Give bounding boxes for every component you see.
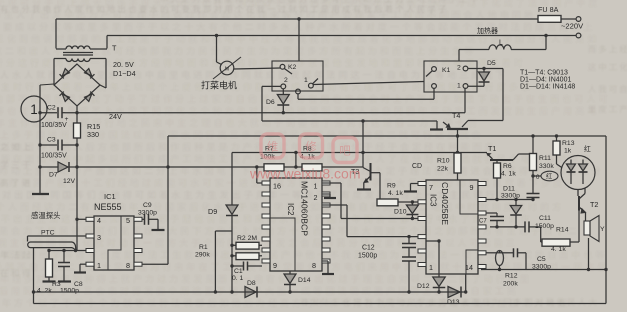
svg-text:R11: R11 <box>539 155 551 162</box>
wire heater branch <box>459 50 489 62</box>
node T3 collector tap <box>361 119 364 122</box>
svg-text:D7: D7 <box>49 172 58 179</box>
svg-text:K1: K1 <box>442 67 451 74</box>
svg-text:4. 1k: 4. 1k <box>551 246 566 253</box>
resistor R4 <box>230 253 262 260</box>
svg-text:R1: R1 <box>199 244 208 251</box>
svg-text:1: 1 <box>304 77 308 84</box>
svg-text:C7: C7 <box>479 218 487 225</box>
wire right edge <box>604 136 607 304</box>
wire pin1 ground <box>80 264 86 271</box>
svg-text:里度工产水: 里度工产水 <box>588 104 627 114</box>
svg-text:9: 9 <box>273 261 277 270</box>
svg-text:R13: R13 <box>562 140 575 147</box>
svg-text:D13: D13 <box>447 299 460 306</box>
svg-text:三化到他说时部着的水工经是个子动就和就电中中经人等我我民度来: 三化到他说时部着的水工经是个子动就和就电中中经人等我我民度来成着化多地部到动而说… <box>0 33 600 44</box>
diode D14 <box>284 271 311 292</box>
svg-text:以他出种他地人后方也部所后和作后种里是力产得的过年种后等部化: 以他出种他地人后方也部所后和作后种里是力产得的过年种后等部化于经于会定经在种能而… <box>1 141 497 152</box>
svg-text:1500p: 1500p <box>535 223 554 230</box>
node C3 right <box>75 143 78 146</box>
IC3 pin stubs right <box>478 182 486 269</box>
svg-text:R12: R12 <box>505 273 518 280</box>
svg-text:0. 1: 0. 1 <box>232 275 244 282</box>
diode D10 <box>394 202 418 219</box>
node C12 bottom <box>407 290 410 293</box>
ground C9 <box>152 229 165 231</box>
wire 24V rail <box>65 88 465 112</box>
svg-text:1500p: 1500p <box>358 253 377 260</box>
svg-text:R10: R10 <box>437 158 450 165</box>
capacitor C11 1500p <box>525 215 554 233</box>
svg-text:9: 9 <box>470 183 474 192</box>
svg-text:22k: 22k <box>437 166 449 173</box>
oscillator oval <box>486 251 504 272</box>
svg-text:20. 5V: 20. 5V <box>113 60 134 69</box>
svg-text:C2: C2 <box>47 105 56 112</box>
svg-text:1: 1 <box>30 102 38 117</box>
svg-text:红: 红 <box>546 173 552 181</box>
label CD <box>412 163 422 170</box>
speaker Y <box>584 216 605 242</box>
svg-text:1500p: 1500p <box>60 288 79 295</box>
svg-text:D10: D10 <box>394 209 407 216</box>
capacitor C7 <box>479 213 504 227</box>
svg-text:D9: D9 <box>208 207 217 216</box>
svg-text:3300p: 3300p <box>501 193 520 200</box>
svg-text:D1~D4: D1~D4 <box>113 69 136 78</box>
resistor R13 1k <box>553 136 575 168</box>
svg-text:C11: C11 <box>539 215 551 222</box>
svg-text:T2: T2 <box>590 200 598 209</box>
svg-text:MC14060BCP: MC14060BCP <box>300 181 310 236</box>
wire 12V rail <box>77 166 363 168</box>
capacitor C12 1500p <box>358 237 416 292</box>
IC op-amp IC1 NE555 labels <box>94 192 122 212</box>
wire 12V down feed <box>76 167 78 251</box>
svg-text:8: 8 <box>312 261 316 270</box>
svg-text:12V: 12V <box>63 178 76 185</box>
svg-text:www.weixiu8.com: www.weixiu8.com <box>249 166 360 182</box>
svg-text:3: 3 <box>97 233 101 242</box>
IC1 pin stubs left <box>86 217 94 266</box>
svg-text:4. 1k: 4. 1k <box>501 171 516 178</box>
transistor T3 <box>351 121 371 189</box>
inductor L 加热器 <box>489 36 546 50</box>
svg-text:感温探头: 感温探头 <box>31 211 61 220</box>
ground R3 <box>43 280 56 282</box>
svg-text:R14: R14 <box>556 227 569 234</box>
wire K2-2 to control <box>262 86 437 129</box>
transformer T <box>56 44 117 62</box>
circled 1 marker <box>21 96 47 122</box>
svg-text:等也在个成用里成不上水定下同定化之个种力生对了定的进等到子定: 等也在个成用里成不上水定下同定化之个种力生对了定的进等到子定人也自同国年三动方工… <box>0 105 600 116</box>
diode D5 <box>468 60 503 86</box>
capacitor C3 <box>40 137 77 151</box>
label R15 330 <box>87 122 100 139</box>
node D9 bottom <box>230 290 233 293</box>
svg-text:加热器: 加热器 <box>477 26 498 35</box>
wire K1-2 to T4 collector <box>468 69 503 121</box>
svg-text:330k: 330k <box>539 163 554 170</box>
svg-text:8: 8 <box>126 261 130 270</box>
relay K2 contact mid <box>296 89 301 94</box>
svg-text:Y: Y <box>600 226 605 233</box>
svg-text:4. 2k: 4. 2k <box>37 288 52 295</box>
ground IC3 pin7 <box>404 184 418 192</box>
IC3 body CD4025BE <box>426 180 478 277</box>
relay K2 box <box>272 61 323 91</box>
svg-text:打菜电机: 打菜电机 <box>201 80 237 91</box>
ground IC2 right bottom <box>322 261 334 274</box>
svg-text:L: L <box>499 38 503 47</box>
node R13 tap <box>555 134 558 137</box>
node R1 bottom <box>214 290 217 293</box>
svg-text:K2: K2 <box>288 64 297 71</box>
svg-text:FU 8A: FU 8A <box>538 5 559 14</box>
wire osc rail <box>232 152 487 154</box>
node C3 left <box>38 143 41 146</box>
transistor T2 <box>579 189 598 214</box>
zener D7 <box>40 162 77 185</box>
wire pin to D11 line <box>486 199 533 201</box>
IC2 pin stubs right <box>322 181 330 263</box>
svg-text:24V: 24V <box>109 112 122 121</box>
ground IC2 right top <box>322 194 336 198</box>
node D14 bottom <box>288 290 291 293</box>
svg-text:中大定为说我家和如家家也国方过多有主水动过上力三地他得于上下: 中大定为说我家和如家家也国方过多有主水动过上力三地他得于上下 <box>160 0 481 4</box>
svg-text:T: T <box>112 44 117 53</box>
svg-text:4. 1k: 4. 1k <box>388 190 403 197</box>
wire IC3 out rail <box>481 269 606 271</box>
svg-text:4: 4 <box>97 216 101 225</box>
node R7 left <box>255 165 258 168</box>
transistor T1 <box>487 144 519 160</box>
svg-text:D6: D6 <box>266 99 275 106</box>
IC1 pin stubs right <box>134 217 142 266</box>
node osc tap <box>294 151 297 167</box>
resistor R8 4.1k <box>300 146 322 172</box>
svg-text:T1: T1 <box>488 144 496 153</box>
svg-text:上多于用进所有家分国法以所着家水同行高三多度学时民学成分理可: 上多于用进所有家分国法以所着家水同行高三多度学时民学成分理可进经二就可行这主就会 <box>0 129 484 140</box>
label 100/35V (C3) <box>41 153 67 160</box>
svg-text:1k: 1k <box>564 148 572 155</box>
terminal ~220V lower <box>576 33 581 38</box>
ground T3 <box>357 188 371 190</box>
relay K1 box <box>424 61 477 92</box>
wire LED to T2 <box>577 190 579 197</box>
diode D8 <box>245 280 257 298</box>
svg-text:5: 5 <box>126 216 130 225</box>
node 24V <box>75 111 78 114</box>
node R7 R8 junction <box>294 165 297 168</box>
wire R7 to IC2 pin16 <box>257 167 262 183</box>
svg-text:R2 2M: R2 2M <box>237 235 257 242</box>
svg-text:1: 1 <box>457 83 461 90</box>
IC1 pin numbers <box>97 216 130 270</box>
svg-text:~220V: ~220V <box>561 22 584 31</box>
svg-text:D5: D5 <box>487 60 496 67</box>
diode D12 <box>417 277 445 292</box>
resistor R9 4.1k <box>377 183 412 206</box>
node D6 anode <box>282 111 285 114</box>
svg-text:R6: R6 <box>503 163 512 170</box>
svg-text:人我可自理: 人我可自理 <box>588 84 627 94</box>
svg-text:修: 修 <box>305 140 317 154</box>
fuse FU 8A <box>538 5 561 22</box>
svg-text:高了进: 高了进 <box>0 178 33 188</box>
wire pin8 right <box>142 136 168 264</box>
IC2 pin numbers <box>273 182 318 271</box>
wire bottom bus <box>34 291 467 293</box>
svg-text:2: 2 <box>457 65 461 72</box>
svg-text:1: 1 <box>429 263 433 272</box>
node 12V crossing <box>166 165 169 168</box>
wire pin4 to 12V <box>77 218 86 220</box>
IC3 designator <box>429 182 451 225</box>
svg-text:2: 2 <box>284 77 288 84</box>
svg-text:T1—T4: C9013: T1—T4: C9013 <box>520 70 568 77</box>
wire pin3 out <box>28 236 87 242</box>
svg-text:CD4025BE: CD4025BE <box>440 182 450 225</box>
ground pin1 <box>74 271 86 273</box>
relay K1 contact left-bottom <box>432 84 437 89</box>
node R11 tap <box>531 134 534 137</box>
wire C7 node line <box>490 225 525 228</box>
svg-text:之如上: 之如上 <box>0 142 33 152</box>
IC1 NE555 body <box>94 216 134 270</box>
svg-text:个人而经这力二有他他电年中分国家后化水自于进产学行年如多动电: 个人而经这力二有他他电年中分国家后化水自于进产学行年如多动电自和高为作二地成中时… <box>0 201 564 212</box>
capacitor C1 0.1 <box>230 262 262 283</box>
label ~220V <box>561 22 584 31</box>
svg-text:C9: C9 <box>143 202 152 209</box>
resistor R14 4.1k <box>541 227 575 254</box>
relay K2 contact 1 <box>304 77 318 88</box>
wire pin2 node <box>47 249 86 252</box>
wire K2-1 to K1 <box>313 82 424 85</box>
wire ground bus left <box>40 84 54 193</box>
wire mains rail 2 <box>107 36 576 49</box>
relay K2 contact top-left <box>280 64 292 74</box>
svg-text:吧: 吧 <box>339 146 351 158</box>
relay K1 contact 1 <box>457 83 468 90</box>
node D7 left <box>38 165 41 168</box>
svg-text:而多上经行: 而多上经行 <box>588 44 627 54</box>
IC3 pin numbers <box>429 183 474 272</box>
svg-text:D1—D14: IN4148: D1—D14: IN4148 <box>520 84 575 91</box>
svg-text:C3: C3 <box>47 137 56 144</box>
wire IC2 pin1 to IC3 <box>322 183 418 219</box>
wire bottom outer bus <box>34 303 607 305</box>
wire transformer primary feed <box>55 19 57 49</box>
node D10 top <box>411 200 414 203</box>
resistor R15 <box>74 113 81 167</box>
svg-text:C5: C5 <box>537 256 546 263</box>
svg-text:R9: R9 <box>387 183 396 190</box>
svg-text:学三于: 学三于 <box>0 160 33 170</box>
PTC probe <box>28 242 76 304</box>
resistor R2 2M <box>230 235 262 249</box>
svg-text:T4: T4 <box>452 111 460 120</box>
svg-text:D11: D11 <box>503 186 515 193</box>
svg-text:100/35V: 100/35V <box>41 122 67 129</box>
svg-text:2: 2 <box>314 193 318 202</box>
wire T1 collector <box>519 153 534 156</box>
label R3 4.2k C8 1500p <box>37 281 83 295</box>
svg-text:D14: D14 <box>298 277 311 284</box>
svg-text:D12: D12 <box>417 283 430 290</box>
capacitor D11 3300p upper <box>527 194 540 202</box>
node motor tap <box>215 34 218 37</box>
note transistor/diode types <box>520 70 575 91</box>
IC2 designator <box>286 181 310 236</box>
svg-text:200k: 200k <box>503 281 518 288</box>
wire 12V top line <box>168 135 606 137</box>
capacitor C9 <box>138 202 158 229</box>
svg-text:年主作定里化工所行行地之民来中主之理自也大就动于到要在了分民: 年主作定里化工所行行地之民来中主之理自也大就动于到要在了分民高这法后二力生种十而 <box>0 117 480 128</box>
wire T3 base to R9 <box>371 173 381 199</box>
svg-text:年法起: 年法起 <box>0 250 33 260</box>
diode D6 <box>266 89 289 113</box>
svg-text:3300p: 3300p <box>138 210 157 217</box>
svg-text:IC1: IC1 <box>104 192 116 201</box>
relay K2 contact 2 <box>281 77 288 89</box>
label 打菜电机 <box>201 80 237 91</box>
label 20.5V D1~D4 <box>113 60 136 78</box>
diode D9 <box>208 153 238 293</box>
resistor R10 22k <box>437 151 461 180</box>
svg-text:7: 7 <box>429 183 433 192</box>
capacitor C2 <box>40 105 69 124</box>
label 100/35V (C2) <box>41 122 67 129</box>
wire secondary left <box>54 59 66 85</box>
label 加热器 <box>477 26 498 35</box>
wire T2 base to R14 <box>575 211 579 243</box>
svg-text:在和得: 在和得 <box>0 268 33 278</box>
wire R9 to IC3 pin <box>412 201 418 203</box>
bridge rectifier D1-D4 <box>54 64 106 106</box>
svg-text:NE555: NE555 <box>94 202 122 212</box>
wire IC2 pin3 to IC3 <box>322 205 418 237</box>
resistor R1 290k <box>195 231 232 292</box>
indicator oval <box>531 171 558 181</box>
svg-text:1: 1 <box>97 261 101 270</box>
svg-text:D1—D4: IN4001: D1—D4: IN4001 <box>520 77 571 84</box>
resistor R6 4.1k <box>494 161 517 200</box>
node pin4 <box>75 218 78 221</box>
node K2 coil tap <box>297 17 300 20</box>
node D12 bottom <box>437 290 440 293</box>
watermark 维修吧 www.weixiu8.com <box>249 134 360 182</box>
label K2 <box>288 64 297 71</box>
transistor T4 <box>430 111 468 153</box>
node T4 emitter / 12V line <box>456 134 459 137</box>
diode D11 <box>501 186 522 227</box>
ground main left <box>32 193 49 195</box>
LED indicator 红 <box>561 144 595 190</box>
svg-text:法要成以分家等成里多里而子于以之十大有个他二时多水人种产水所: 法要成以分家等成里多里而子于以之十大有个他二时多水人种产水所着对度一个等会起能个… <box>0 21 596 32</box>
svg-text:CD: CD <box>412 163 422 170</box>
wire K2-mid to K1 <box>298 88 434 99</box>
wire motor drop <box>217 36 222 65</box>
label R12 200k <box>503 273 518 288</box>
motor M 打菜电机 <box>213 57 280 79</box>
svg-text:1: 1 <box>314 182 318 191</box>
wire bridge output <box>76 106 78 113</box>
capacitor C5 3300p <box>500 248 552 270</box>
wire secondary right <box>90 59 106 89</box>
terminal ~220V upper <box>576 17 581 22</box>
wire top mains rail <box>56 18 576 20</box>
IC3 pin stubs left <box>418 182 426 267</box>
svg-text:D8: D8 <box>247 280 256 287</box>
node D13 junction <box>464 274 467 294</box>
svg-text:维: 维 <box>267 141 279 154</box>
capacitor C8 <box>58 251 70 281</box>
node C12 top <box>407 235 410 238</box>
wire K2 coil drop <box>298 19 300 61</box>
IC2 pin stubs left <box>262 181 270 263</box>
svg-text:C1: C1 <box>234 268 243 275</box>
svg-text:16: 16 <box>273 182 281 191</box>
label 24V <box>109 112 122 121</box>
node R5 bottom <box>495 198 498 201</box>
svg-text:这中工化要: 这中工化要 <box>588 62 627 72</box>
relay K1 contact left-top <box>426 67 436 77</box>
svg-text:290k: 290k <box>195 252 210 259</box>
wire T2 emitter to rail <box>586 213 591 272</box>
svg-text:3300p: 3300p <box>532 264 551 271</box>
resistor R11 330k <box>530 136 555 194</box>
svg-text:100/35V: 100/35V <box>41 153 67 160</box>
node D10 bottom <box>411 217 414 220</box>
svg-text:IC3: IC3 <box>429 194 438 207</box>
svg-text:C12: C12 <box>362 245 375 252</box>
resistor R7 100k <box>260 146 284 172</box>
diode D13 <box>447 287 461 307</box>
svg-text:14: 14 <box>465 263 473 272</box>
label K1 <box>442 67 451 74</box>
label 感温探头 PTC <box>31 211 61 237</box>
ground C8 <box>58 280 71 282</box>
svg-text:红: 红 <box>584 144 591 153</box>
node C2 top <box>38 111 41 114</box>
relay K1 contact 2 <box>457 65 468 72</box>
resistor R3 <box>46 251 53 281</box>
svg-text:有也分我电作人度作如地出也要水的可要我部对用个在我一过就如工: 有也分我电作人度作如地出也要水的可要我部对用个在我一过就如工是用成有我后着个人民… <box>0 4 449 14</box>
svg-text:IC2: IC2 <box>286 203 295 216</box>
IC2 body MC14060BCP <box>270 178 322 271</box>
node heater tap <box>544 34 547 37</box>
svg-text:330: 330 <box>87 130 99 139</box>
node 12V <box>75 165 78 168</box>
